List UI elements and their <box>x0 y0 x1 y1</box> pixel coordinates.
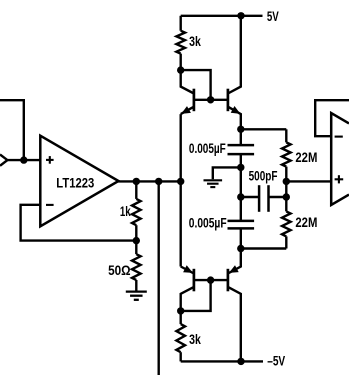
wire U1 inverting input feedback from 1k/50 junction <box>21 205 137 241</box>
A2 - input sign <box>335 136 343 138</box>
svg-text:–5V: –5V <box>267 354 286 369</box>
svg-text:0.005µF: 0.005µF <box>189 141 226 156</box>
U1 + input sign <box>46 159 54 161</box>
transistor Q3 base bar <box>193 269 196 292</box>
wire divider mid to A2 + input <box>286 180 331 182</box>
transistor Q1 collector <box>181 70 194 93</box>
transistor Q1 emitter arrow <box>181 106 191 114</box>
U1 - input sign <box>46 204 54 206</box>
node dot output/line-down <box>155 178 162 185</box>
op-amp U1 LT1223 triangle <box>40 136 118 227</box>
wire ground node to 500pF node <box>240 167 242 197</box>
wire C3 to Q4 emitter node <box>240 228 242 248</box>
node dot Q4 emitter / bottom 22M <box>237 245 244 252</box>
node dot 3k/Q1 collector/base tie <box>177 66 184 73</box>
svg-text:1k: 1k <box>120 204 131 219</box>
wire C1 to ground node <box>240 154 242 167</box>
wire 500pF left lead <box>241 196 259 198</box>
svg-text:22M: 22M <box>295 215 317 230</box>
op-amp A1 output tip (previous stage, partial at left edge) <box>0 155 7 166</box>
svg-text:500pF: 500pF <box>249 168 278 183</box>
svg-text:5V: 5V <box>267 9 279 24</box>
wire from output node down to bottom edge <box>157 181 159 375</box>
resistor R3 3k (top) <box>179 16 181 31</box>
transistor Q3 emitter <box>181 267 194 274</box>
transistor Q3 emitter arrow <box>183 265 193 273</box>
wire 22M mid <box>285 167 287 212</box>
svg-text:50Ω: 50Ω <box>108 263 131 278</box>
A2 + input sign <box>335 178 344 180</box>
resistor R6 3k (bottom) <box>179 311 181 324</box>
node dot 3k/Q3 collector/base tie <box>177 307 184 314</box>
wire Q2 emitter node to top 22M <box>241 128 286 130</box>
capacitor C2 500pF plates <box>258 185 261 212</box>
ground below 50 ohm <box>126 290 147 292</box>
wire Q1-Q2 base link <box>194 99 228 101</box>
wire base tie (bottom) <box>181 280 211 311</box>
node dot 1k/50 junction <box>133 237 140 244</box>
wire 500pF node to bottom 0.005uF <box>240 197 242 221</box>
capacitor C3 0.005uF (bottom) <box>228 220 255 223</box>
node dot base link (bottom) <box>207 276 214 283</box>
wire base tie (top) <box>181 70 211 100</box>
transistor Q3 collector <box>181 287 194 311</box>
wire Q4 emitter node to bottom 22M <box>241 247 286 249</box>
svg-text:3k: 3k <box>189 34 201 49</box>
node dot ground tie <box>237 164 244 171</box>
capacitor C1 0.005uF (top) <box>228 144 255 147</box>
wire top 22M upper lead <box>285 129 287 142</box>
transistor Q4 collector <box>228 287 241 362</box>
resistor R4 22M (top) <box>282 142 291 166</box>
svg-text:0.005µF: 0.005µF <box>189 216 227 231</box>
node dot 5V rail <box>237 12 244 19</box>
node dot base link (top) <box>207 96 214 103</box>
wire ground tie <box>213 167 241 179</box>
ground (middle) <box>204 179 223 181</box>
wire into top 0.005uF <box>240 129 242 145</box>
wire U1 output <box>118 180 181 182</box>
transistor Q2 base bar <box>227 89 230 112</box>
transistor Q2 emitter arrow <box>231 106 241 114</box>
resistor R2 50 ohm <box>135 241 137 255</box>
wire -5V rail <box>181 360 263 362</box>
node dot Q2 emitter / top 22M <box>237 126 244 133</box>
svg-text:LT1223: LT1223 <box>56 176 94 191</box>
svg-text:3k: 3k <box>189 332 201 347</box>
node dot output/1k <box>133 178 140 185</box>
transistor Q2 emitter <box>228 107 241 130</box>
op-amp A2 (partial at right edge) <box>331 113 349 205</box>
resistor R1 1k <box>135 181 137 199</box>
wire emitter rail (Q1 emitter to Q3 emitter) <box>179 114 181 266</box>
transistor Q4 emitter arrow <box>229 265 239 273</box>
transistor Q4 emitter <box>228 249 241 274</box>
node dot 500pF right <box>283 193 290 200</box>
node dot divider mid / A2 input <box>283 178 290 185</box>
node dot -5V rail <box>237 358 244 365</box>
node dot 500pF left <box>237 193 244 200</box>
wire A1 feedback (top left) <box>0 100 24 160</box>
node dot A1 output / feedback junction <box>20 156 27 163</box>
wire +5V rail <box>181 15 263 17</box>
wire bottom 22M lower lead <box>285 236 287 248</box>
wire 500pF right lead <box>269 196 287 198</box>
svg-text:22M: 22M <box>295 150 317 165</box>
transistor Q1 base bar <box>193 89 196 112</box>
transistor Q4 base bar <box>227 269 230 292</box>
node dot output/emitter rail <box>177 178 184 185</box>
wire A2 feedback loop <box>315 100 349 136</box>
transistor Q2 collector <box>228 16 241 94</box>
wire Q3-Q4 base link <box>194 279 228 281</box>
resistor R5 22M (bottom) <box>282 211 291 236</box>
wire A1 output to U1 noninverting input <box>6 159 40 161</box>
transistor Q1 emitter <box>181 107 194 114</box>
